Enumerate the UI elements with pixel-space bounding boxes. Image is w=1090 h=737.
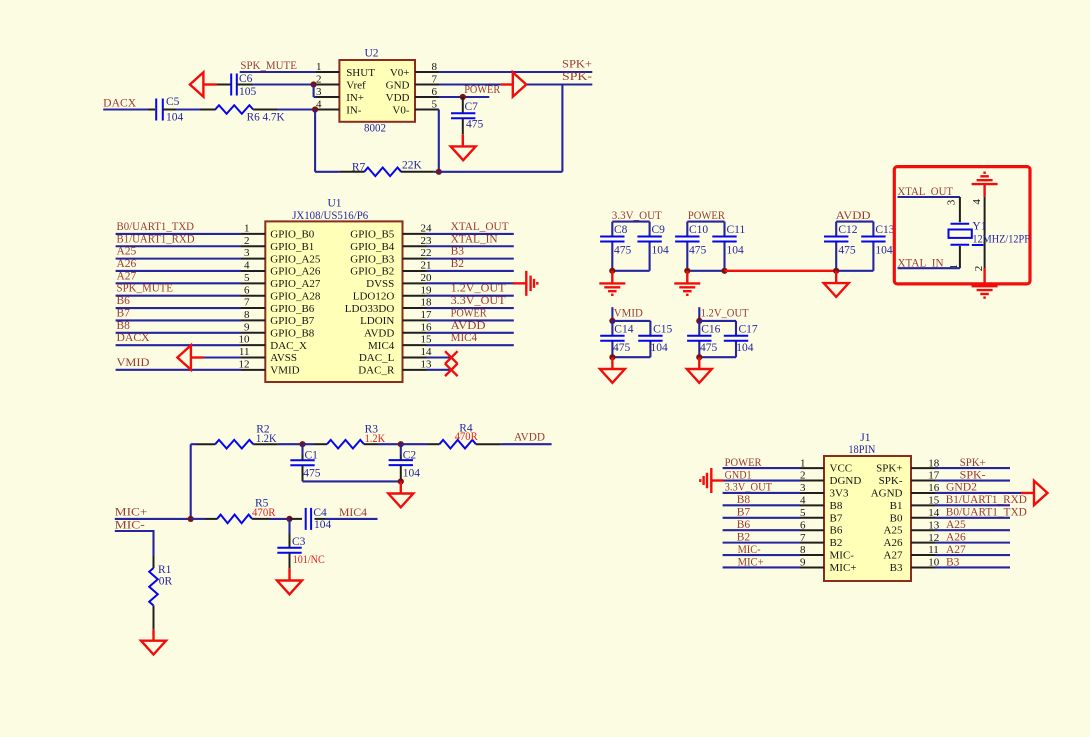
svg-text:B7: B7 — [737, 507, 751, 519]
svg-text:3.3V_OUT: 3.3V_OUT — [725, 482, 773, 494]
wire net MIC4 — [427, 344, 514, 346]
U1 pin 13 — [403, 369, 427, 371]
svg-text:A27: A27 — [117, 270, 137, 282]
svg-text:B3: B3 — [890, 562, 903, 574]
junction C11 rail — [721, 268, 727, 274]
capacitor C2 — [400, 444, 402, 455]
svg-text:A25: A25 — [884, 525, 903, 537]
svg-text:DGND: DGND — [830, 475, 862, 487]
wire top rail C16-C17 — [699, 321, 736, 357]
svg-text:475: 475 — [614, 245, 632, 257]
svg-text:B0/UART1_TXD: B0/UART1_TXD — [946, 507, 1027, 519]
svg-text:104: 104 — [403, 467, 421, 479]
capacitor C5 — [155, 99, 157, 121]
svg-text:B8: B8 — [830, 500, 843, 512]
svg-text:DVSS: DVSS — [366, 278, 394, 290]
wire net XTAL_OUT — [427, 233, 514, 235]
U1 pin 13 no-connect wire — [427, 369, 452, 371]
svg-text:IN+: IN+ — [346, 92, 364, 104]
svg-text:9: 9 — [800, 557, 806, 569]
svg-text:B0/UART1_TXD: B0/UART1_TXD — [117, 221, 195, 233]
U1 pin 3 — [241, 258, 265, 260]
U2 pin 6 — [415, 96, 439, 98]
svg-text:6: 6 — [432, 86, 438, 98]
wire net B1/UART1_RXD — [935, 504, 1010, 506]
svg-text:GPIO_B0: GPIO_B0 — [270, 229, 315, 241]
svg-text:U1: U1 — [328, 198, 342, 210]
svg-text:B0: B0 — [890, 512, 903, 524]
J1 pin 16 — [911, 492, 935, 494]
svg-text:8002: 8002 — [364, 123, 386, 135]
svg-text:SPK+: SPK+ — [960, 457, 986, 469]
wire net B8 — [723, 504, 800, 506]
svg-text:101/NC: 101/NC — [293, 554, 325, 566]
svg-text:B7: B7 — [117, 307, 131, 319]
svg-text:C12: C12 — [838, 224, 857, 236]
resistor R2 — [215, 440, 253, 449]
svg-text:2: 2 — [244, 235, 250, 247]
J1 pin 8 — [800, 554, 824, 556]
svg-text:475: 475 — [700, 342, 718, 354]
svg-text:POWER: POWER — [451, 307, 487, 319]
svg-text:GND1: GND1 — [725, 469, 752, 481]
wire R7 to junction — [401, 171, 434, 173]
crystal pin 4 (vertical) — [984, 197, 986, 268]
svg-text:Y1: Y1 — [972, 220, 986, 232]
svg-text:0R: 0R — [159, 575, 173, 587]
svg-text:12: 12 — [239, 358, 250, 370]
J1 pin 7 — [800, 542, 824, 544]
wire net 1.2V_OUT — [427, 295, 514, 297]
svg-text:24: 24 — [421, 223, 433, 235]
wire net DACX — [116, 344, 241, 346]
wire junction to R5 — [191, 518, 206, 520]
earth ground below crystal box — [972, 285, 998, 287]
U1 pin 23 — [403, 245, 427, 247]
U2 pin 3 — [315, 96, 339, 98]
svg-text:17: 17 — [421, 309, 433, 321]
capacitor C4 — [305, 508, 307, 530]
crystal pin 2 red tail — [983, 268, 985, 283]
capacitor C15 — [638, 335, 662, 337]
svg-text:7: 7 — [432, 73, 438, 85]
wire 1.2V stub — [698, 307, 700, 321]
resistor R1 (vertical) — [153, 556, 155, 568]
U1 pin 22 — [403, 258, 427, 260]
svg-text:VMID: VMID — [270, 365, 299, 377]
J1 pin 12 — [911, 542, 935, 544]
junction MIC+/R2 branch — [188, 516, 194, 522]
port arrow right (GND2) — [1034, 481, 1048, 505]
svg-text:105: 105 — [239, 86, 257, 98]
svg-text:6: 6 — [800, 519, 806, 531]
wire net MIC+ — [723, 566, 800, 568]
U1 pin 6 — [241, 295, 265, 297]
junction C2 ground — [398, 478, 404, 484]
capacitor C16 — [687, 335, 711, 337]
wire net A25 — [116, 258, 241, 260]
J1 pin 17 — [911, 480, 935, 482]
junction C10 ground — [684, 268, 690, 274]
svg-text:3: 3 — [316, 86, 322, 98]
svg-text:C13: C13 — [875, 224, 894, 236]
capacitor C12 — [824, 236, 848, 238]
svg-text:21: 21 — [421, 260, 432, 272]
svg-text:C2: C2 — [403, 449, 417, 461]
svg-text:B1: B1 — [890, 500, 903, 512]
junction pin2/pin3 — [311, 81, 317, 87]
wire net POWER — [427, 319, 514, 321]
signal ground (sideways) at J1 pin 2 GND1 — [710, 468, 712, 493]
earth ground (flipped) above crystal pin 4 — [972, 183, 998, 185]
junction C12 ground — [833, 268, 839, 274]
svg-text:B6: B6 — [737, 519, 751, 531]
wire net POWER — [723, 467, 800, 469]
port arrow left at U1 pin 11 (VMID) — [177, 345, 191, 369]
wire top-rail corner down to MIC+ row — [190, 444, 192, 519]
junction R5/C3/C4 — [286, 516, 292, 522]
wire junction to R4 — [401, 443, 428, 445]
svg-text:C5: C5 — [166, 96, 180, 108]
svg-text:C15: C15 — [653, 323, 672, 335]
wire net A26 — [935, 542, 1010, 544]
svg-text:B8: B8 — [737, 494, 751, 506]
svg-text:104: 104 — [736, 342, 754, 354]
U1 pin 17 — [403, 319, 427, 321]
svg-text:C10: C10 — [689, 224, 708, 236]
junction C16 ground — [696, 354, 702, 360]
wire R4 to AVDD — [476, 443, 501, 445]
svg-text:5: 5 — [800, 507, 806, 519]
U2 pin 7 — [415, 84, 439, 86]
wire net B2 — [723, 542, 800, 544]
capacitor C11 — [712, 236, 736, 238]
svg-text:AVDD: AVDD — [364, 327, 394, 339]
wire net AVDD — [427, 332, 514, 334]
junction VMID top — [609, 318, 615, 324]
svg-text:B6: B6 — [117, 295, 131, 307]
wire top rail C14-C15 — [612, 321, 650, 357]
svg-text:A27: A27 — [884, 550, 903, 562]
svg-text:2: 2 — [316, 73, 322, 85]
svg-text:B3: B3 — [946, 556, 960, 568]
svg-text:B1/UART1_RXD: B1/UART1_RXD — [117, 233, 195, 245]
wire net GND2 — [935, 492, 1010, 494]
svg-text:A26: A26 — [117, 258, 137, 270]
wire C3 to ground — [289, 553, 291, 568]
wire net B0/UART1_TXD — [116, 233, 241, 235]
svg-text:POWER: POWER — [725, 457, 762, 469]
wire net A26 — [116, 270, 241, 272]
svg-text:C11: C11 — [727, 224, 746, 236]
svg-text:3: 3 — [800, 482, 806, 494]
svg-text:MIC+: MIC+ — [738, 556, 764, 568]
svg-text:104: 104 — [652, 245, 670, 257]
wire U2 pin8 V0+ to SPK+ — [439, 71, 593, 73]
crystal pin 1 (vertical) — [959, 246, 961, 268]
svg-text:C3: C3 — [292, 536, 306, 548]
wire net B3 — [935, 566, 1010, 568]
svg-text:104: 104 — [875, 245, 893, 257]
svg-text:SPK-: SPK- — [879, 475, 903, 487]
junction 1.2V top — [696, 318, 702, 324]
U1 pin 15 — [403, 344, 427, 346]
svg-text:U2: U2 — [365, 48, 379, 60]
wire MIC+ to R5 — [115, 518, 191, 520]
svg-text:A25: A25 — [946, 519, 966, 531]
wire arrow to pin 11 — [191, 356, 204, 358]
svg-text:AVDD: AVDD — [836, 210, 871, 222]
U1 pin 16 — [403, 332, 427, 334]
svg-text:SPK-: SPK- — [562, 71, 592, 83]
capacitor C3 — [277, 547, 301, 549]
wire GND2 to port arrow — [1021, 492, 1034, 494]
svg-text:R6 4.7K: R6 4.7K — [247, 112, 286, 124]
ground (triangle) below C2 — [388, 494, 413, 508]
J1 pin 13 — [911, 529, 935, 531]
port arrow left (mute input) — [190, 72, 204, 96]
wire to triangle ground — [400, 481, 402, 493]
svg-text:B2: B2 — [737, 531, 751, 543]
wire R3 to C2 junction — [364, 443, 378, 445]
svg-text:J1: J1 — [860, 432, 870, 444]
capacitor C1 — [301, 444, 303, 455]
resistor R5 — [217, 515, 252, 524]
svg-text:SPK_MUTE: SPK_MUTE — [117, 283, 174, 295]
wire to triangle ground — [611, 357, 613, 369]
J1 pin 11 — [911, 554, 935, 556]
svg-text:22K: 22K — [402, 160, 423, 172]
crystal pin 3 (vertical) — [959, 197, 961, 222]
U1 pin 19 — [403, 295, 427, 297]
svg-text:GPIO_B3: GPIO_B3 — [350, 253, 395, 265]
svg-text:C1: C1 — [305, 449, 319, 461]
svg-text:LDO12O: LDO12O — [353, 290, 395, 302]
port arrow right (speaker) — [513, 72, 527, 96]
svg-text:GPIO_B2: GPIO_B2 — [350, 266, 394, 278]
svg-text:SPK+: SPK+ — [562, 59, 592, 71]
svg-text:5: 5 — [244, 272, 250, 284]
svg-text:B3: B3 — [451, 246, 465, 258]
svg-text:V0-: V0- — [392, 105, 409, 117]
U2 pin 2 — [315, 84, 339, 86]
wire junction to C4 — [290, 518, 303, 520]
wire U2 pin6 VDD / POWER net — [439, 96, 489, 98]
U1 pin 11 — [241, 357, 265, 359]
wire GND2 extension — [1010, 492, 1021, 494]
svg-text:B7: B7 — [830, 512, 843, 524]
svg-text:7: 7 — [244, 297, 250, 309]
svg-text:DAC_R: DAC_R — [358, 365, 395, 377]
wire net B6 — [116, 307, 241, 309]
svg-text:3.3V_OUT: 3.3V_OUT — [451, 295, 506, 307]
wire R2 to C1 junction — [253, 443, 278, 445]
svg-text:1.2V_OUT: 1.2V_OUT — [451, 283, 506, 295]
ground (triangle) below R1 — [141, 641, 166, 655]
svg-text:MIC+: MIC+ — [115, 507, 148, 519]
svg-text:8: 8 — [244, 309, 250, 321]
svg-text:GPIO_B8: GPIO_B8 — [270, 327, 315, 339]
junction R3/R4/C2 — [398, 441, 404, 447]
svg-text:MIC4: MIC4 — [368, 340, 395, 352]
U2 pin 4 — [315, 109, 339, 111]
svg-text:AVSS: AVSS — [270, 352, 297, 364]
wire net VMID — [116, 369, 241, 371]
ground (triangle) below C7 — [451, 146, 476, 160]
svg-text:GPIO_B6: GPIO_B6 — [270, 303, 315, 315]
J1 pin 5 — [800, 517, 824, 519]
U1 pin 20 — [403, 282, 427, 284]
svg-text:B8: B8 — [117, 320, 131, 332]
J1 pin 3 — [800, 492, 824, 494]
svg-text:MIC4: MIC4 — [451, 332, 478, 344]
capacitor C10 — [675, 236, 699, 238]
svg-text:B2: B2 — [830, 537, 843, 549]
capacitor C14 — [600, 335, 624, 337]
svg-text:12MHZ/12PF: 12MHZ/12PF — [972, 234, 1030, 246]
svg-text:GND: GND — [386, 80, 410, 92]
J1 pin 15 — [911, 504, 935, 506]
wire net A27 — [116, 282, 241, 284]
svg-text:470R: 470R — [455, 431, 478, 443]
wire net B2 — [427, 270, 514, 272]
wire R6 to U2 pin 4 — [253, 109, 277, 111]
U2 pin 8 — [415, 71, 439, 73]
svg-text:C16: C16 — [701, 323, 720, 335]
J1 pin 2 — [800, 480, 824, 482]
wire ground to pin 4 — [983, 184, 985, 197]
U1 pin 1 — [241, 233, 265, 235]
crystal highlight box — [894, 167, 1030, 284]
svg-text:C14: C14 — [614, 323, 633, 335]
svg-text:C4: C4 — [313, 507, 327, 519]
svg-text:MIC-: MIC- — [738, 544, 761, 556]
U1 pin 14 — [403, 357, 427, 359]
svg-text:104: 104 — [166, 112, 184, 124]
wire VMID stub — [611, 307, 613, 321]
wire C5 to R6 — [163, 109, 176, 111]
wire top rail (R2/R3/R4 row) — [191, 443, 196, 445]
J1 pin 9 — [800, 566, 824, 568]
svg-text:6: 6 — [244, 284, 250, 296]
svg-text:DAC_L: DAC_L — [359, 352, 395, 364]
svg-text:A26: A26 — [946, 531, 966, 543]
svg-text:8: 8 — [432, 61, 438, 73]
junction C8 ground — [609, 268, 615, 274]
svg-text:B1/UART1_RXD: B1/UART1_RXD — [946, 494, 1027, 506]
J1 pin 14 — [911, 517, 935, 519]
no-connect X pin 13 — [445, 364, 458, 377]
svg-text:10: 10 — [239, 334, 251, 346]
wire net SPK_MUTE — [116, 295, 241, 297]
svg-text:GPIO_B7: GPIO_B7 — [270, 315, 315, 327]
svg-text:GPIO_B4: GPIO_B4 — [350, 241, 395, 253]
wire net B1/UART1_RXD — [116, 245, 241, 247]
U2 pin 1 — [315, 71, 339, 73]
svg-text:SPK+: SPK+ — [876, 463, 902, 475]
earth ground below C10 — [674, 282, 700, 284]
wire net A27 — [935, 554, 1010, 556]
wire to triangle ground — [698, 357, 700, 369]
svg-text:16: 16 — [421, 321, 433, 333]
svg-text:18PIN: 18PIN — [848, 444, 876, 456]
svg-text:GPIO_A28: GPIO_A28 — [270, 290, 321, 302]
U1 pin 18 — [403, 307, 427, 309]
svg-text:DAC_X: DAC_X — [270, 340, 307, 352]
svg-text:GPIO_B1: GPIO_B1 — [270, 241, 314, 253]
wire junction down to C7 — [462, 97, 464, 113]
svg-text:XTAL_OUT: XTAL_OUT — [451, 221, 509, 233]
svg-text:GPIO_A26: GPIO_A26 — [270, 266, 321, 278]
wire top rail C12-C13 — [836, 222, 873, 271]
capacitor C8 — [600, 236, 624, 238]
crystal Y1 glyph — [951, 223, 970, 225]
resistor R6 — [215, 105, 253, 114]
wire net SPK- — [935, 479, 1010, 481]
wire to earth ground — [686, 271, 688, 284]
U1 pin 8 — [241, 319, 265, 321]
junction C14 ground — [609, 354, 615, 360]
wire U2 pin5 V0- down — [415, 109, 437, 111]
wire net B8 — [116, 332, 241, 334]
svg-text:475: 475 — [466, 119, 484, 131]
wire junction down to R7 rail — [314, 110, 316, 172]
svg-text:GND2: GND2 — [946, 482, 977, 494]
J1 pin 10 — [911, 566, 935, 568]
U1 pin 7 — [241, 307, 265, 309]
wire SPK_MUTE to U2 pin 1 — [240, 71, 316, 73]
svg-text:475: 475 — [689, 245, 707, 257]
svg-text:SPK-: SPK- — [960, 469, 986, 481]
svg-text:2: 2 — [800, 470, 806, 482]
U2 pin 5 — [415, 109, 439, 111]
wire U2 pin7 GND to port arrow — [439, 83, 501, 85]
wire net B0/UART1_TXD — [935, 517, 1010, 519]
ground (triangle) below C12 — [824, 283, 849, 297]
svg-text:VMID: VMID — [614, 307, 643, 319]
resistor R4 — [439, 440, 475, 449]
svg-text:POWER: POWER — [464, 84, 500, 96]
wire POWER group to AVDD group (red) — [725, 270, 837, 272]
svg-text:8: 8 — [800, 544, 806, 556]
wire net B7 — [723, 517, 800, 519]
svg-text:GPIO_A27: GPIO_A27 — [270, 278, 321, 290]
svg-text:14: 14 — [421, 346, 433, 358]
svg-text:470R: 470R — [252, 507, 276, 519]
svg-text:104: 104 — [651, 342, 669, 354]
U1 pin 5 — [241, 282, 265, 284]
wire net 3.3V_OUT — [723, 492, 800, 494]
wire junction down to pin 3 — [313, 85, 315, 98]
svg-text:MIC-: MIC- — [115, 520, 145, 532]
svg-text:13: 13 — [421, 358, 433, 370]
svg-text:9: 9 — [244, 321, 250, 333]
wire C6 to U2 pin 2 — [237, 84, 253, 86]
wire to earth ground — [611, 271, 613, 284]
ground (triangle) below C14 — [600, 369, 625, 383]
svg-text:V0+: V0+ — [390, 67, 410, 79]
svg-text:19: 19 — [421, 284, 433, 296]
capacitor C9 — [637, 236, 661, 238]
svg-text:B2: B2 — [451, 258, 465, 270]
svg-text:XTAL_IN: XTAL_IN — [451, 233, 499, 245]
svg-text:C9: C9 — [652, 224, 666, 236]
svg-text:SHUT: SHUT — [346, 67, 375, 79]
svg-text:DACX: DACX — [117, 332, 151, 344]
svg-text:C6: C6 — [239, 73, 253, 85]
wire C1 bottom rail to C2 bottom — [302, 466, 304, 482]
U1 pin 24 — [403, 233, 427, 235]
